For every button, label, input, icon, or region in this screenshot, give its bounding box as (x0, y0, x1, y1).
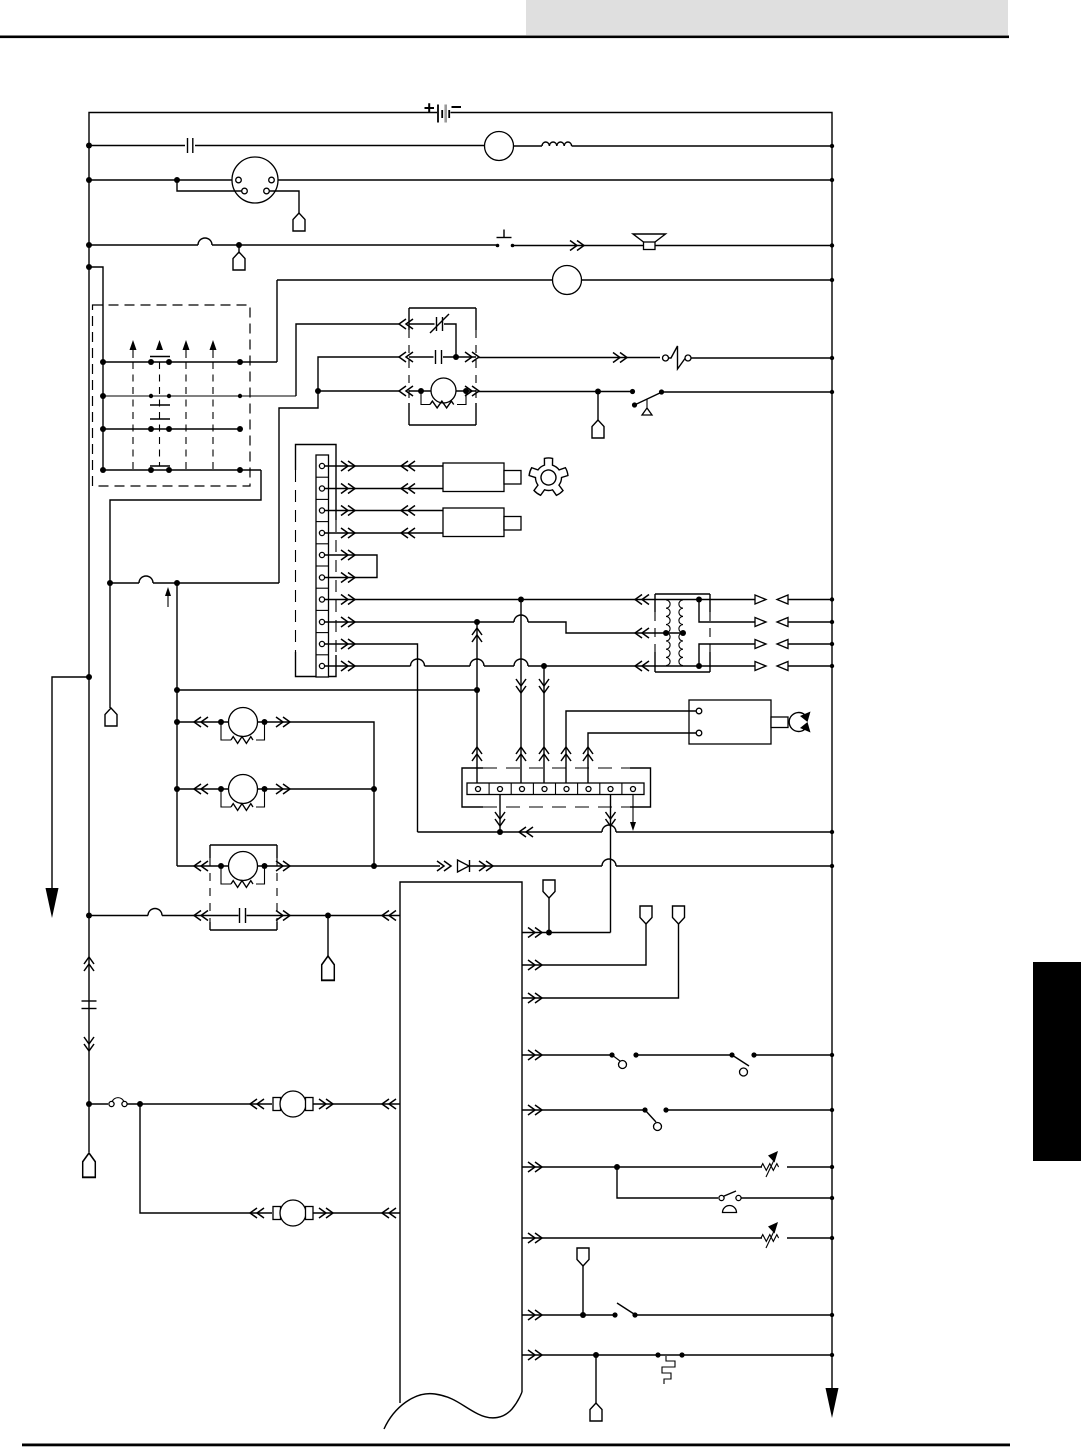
node row1315 right bus (830, 1313, 834, 1317)
node row245 lug branch (236, 242, 242, 248)
wire pin2 row y489 (325, 488, 444, 490)
resistor R3 under motor2 (221, 789, 265, 810)
distributor pin 3 (242, 188, 248, 194)
connector strip X1 pin circles (319, 463, 324, 668)
wire branch x617 to row1198 (617, 1167, 718, 1198)
chevron into box2 row533 (401, 528, 415, 538)
motor M3 nodes (218, 863, 268, 869)
wire relay row2 right (443, 356, 476, 358)
chevron out pin2 (341, 484, 355, 494)
chevron into box2 row511 (401, 506, 415, 516)
chevron out pin9 (341, 639, 355, 649)
wire pin row y1315 seg b (635, 1314, 832, 1316)
relay box A tab (504, 471, 521, 485)
chevron before diode (437, 861, 451, 871)
switch S3 on row1055 (609, 1052, 638, 1068)
relay K1 crossed capacitor contact (430, 314, 449, 333)
wire row1238 to bus (787, 1237, 832, 1239)
wire drop x521 from row599 (520, 600, 522, 784)
fuse center crossbar mid2 (150, 418, 170, 420)
fuse element arrow 2 (156, 340, 163, 350)
wire transformer tap to row622 out (699, 600, 755, 623)
wire hop row666 over 417 (411, 659, 425, 666)
wire pin row y1110 seg b (666, 1109, 832, 1111)
connector strip X1 outer housing (296, 445, 337, 677)
node row145 left bus (86, 143, 92, 149)
connector strip X2 body cells (467, 783, 644, 795)
wire transformer row666 out (710, 665, 755, 667)
wire row391 to switch (478, 391, 631, 393)
node row599 drop junction (518, 597, 524, 603)
chevron out of wiper box row915 (276, 911, 290, 921)
motor M5 with brushes (273, 1200, 313, 1226)
chevron out of motor4 (319, 1099, 333, 1109)
wire relay row3 feed (318, 390, 400, 392)
wire pin4 row y533 (325, 532, 444, 534)
chevron down on x500 (495, 812, 505, 826)
distributor pin 1 (236, 177, 242, 183)
wire lug lead x596 (595, 1355, 597, 1403)
node motor2 feed (174, 786, 180, 792)
wire hop on row y245 (198, 238, 212, 245)
node row622 drop junction (474, 619, 480, 625)
actuator pin top (696, 708, 702, 714)
wire lug lead 598 (597, 392, 599, 421)
connector chevron into relay row1 (399, 319, 413, 329)
wire row y245 segment c (513, 245, 832, 247)
node x374 row789 (371, 786, 377, 792)
terminal lug below row245 (233, 252, 245, 270)
wire row1198 to bus (741, 1197, 832, 1199)
node row690 at x177 (174, 687, 180, 693)
wire row y832 seg a (418, 831, 603, 833)
motor M2 row wire right (258, 788, 375, 790)
wire breaker to right bus (691, 357, 832, 359)
wire strip X2 pin7 drop (610, 795, 612, 933)
wire row y915 seg b (162, 915, 239, 917)
chevron into transformer row633 (635, 628, 649, 638)
terminal lug above row1315 (577, 1248, 589, 1266)
node row1104 branch x140 (137, 1101, 143, 1107)
relay K1 motor M circle (431, 378, 456, 403)
node row1104 left bus (86, 1101, 92, 1107)
node row832 right bus (830, 830, 834, 834)
node left bus fuse feed 267 (86, 264, 92, 270)
chevron out pin3 (341, 506, 355, 516)
wire row666 seg d to transformer (528, 665, 655, 667)
fuse center crossbar top (150, 356, 170, 358)
motor M2 nodes (218, 786, 268, 792)
fuse dashed element 4 (212, 362, 214, 470)
horn H1 speaker symbol (633, 234, 666, 250)
relay K1 motor nodes (418, 388, 469, 394)
wire row622 step to y633 (528, 622, 655, 633)
wire row y245 segment b (212, 244, 496, 246)
motor M1 row wire left (177, 721, 230, 723)
terminal lug above row998 (673, 906, 685, 924)
relay K1 breaker contact row1 wire (409, 323, 435, 325)
ECU torn bottom wavy edge (384, 1392, 522, 1429)
fuse box dashed enclosure (93, 305, 251, 486)
node row245 left bus (86, 242, 92, 248)
wire pin row y1167 (522, 1166, 762, 1168)
motor M1 nodes (218, 719, 268, 725)
inline connector contacts row1104 (109, 1098, 127, 1107)
relay K1 row2 wire left (409, 356, 434, 358)
fuse element arrow 4 (210, 340, 217, 358)
connector chevron into relay row2 (399, 352, 413, 362)
transformer T1 primary winding (666, 600, 670, 666)
node row1055 right bus (830, 1053, 834, 1057)
node row932 lug branch (546, 930, 552, 936)
wire pin row y932 (522, 932, 611, 934)
inductor L1 coil (542, 142, 572, 146)
wire lug lead x110 (109, 583, 111, 708)
node row583 left end (107, 580, 113, 586)
pin row y1315 chevron (528, 1310, 542, 1320)
wire row y690 cross line (177, 689, 477, 691)
node row666 drop junction (541, 663, 547, 669)
fuse element arrow 3 (183, 340, 190, 358)
node lug branch 598 (595, 389, 601, 395)
wire row y1213 seg b (313, 1212, 400, 1214)
rheostat VR1 on row1167 (761, 1151, 779, 1177)
wire relay row2 feed jog (318, 357, 400, 391)
motor M3 row wire left (177, 865, 230, 867)
wire row y915 seg a (89, 915, 148, 917)
wire pin1 row y466 (325, 465, 444, 467)
wire pin row y1055 seg b (636, 1054, 732, 1056)
wire row y280 right (582, 279, 833, 281)
chevron into motor4 (250, 1099, 264, 1109)
chapter tab black block (1033, 962, 1081, 1161)
rheostat VR2 on row1238 (761, 1222, 779, 1248)
wire strip X2 pin2 drop (499, 795, 501, 833)
wire pin row y1110 seg a (522, 1109, 645, 1111)
chevron out pin1 (341, 461, 355, 471)
chevron out pin6 (341, 573, 355, 583)
fuse box left column wire (102, 362, 104, 470)
capacitor C1 on row y145 (188, 138, 193, 153)
chevron down on left bus (84, 1037, 94, 1051)
terminal lug left bus bottom (83, 1153, 96, 1177)
node row832 x500 (497, 829, 503, 835)
wire row666 seg c (484, 665, 514, 667)
wire transformer tap to row644 out (699, 644, 755, 666)
node row866 right bus (830, 864, 834, 868)
connector chevron into relay row3 (399, 386, 413, 396)
chevron out of motor1 (276, 717, 290, 727)
wire drop x544 from row666 (543, 666, 545, 783)
relay box K1 dashed enclosure (409, 308, 476, 425)
resistor R2 under motor1 (221, 722, 265, 743)
circuit breaker CB1 (663, 346, 692, 369)
momentary switch S1 contact gap (496, 230, 515, 248)
wire pin8 row y622 (325, 621, 515, 623)
wire hop row666 over 521 (514, 659, 528, 666)
switch S4 on row1055 (729, 1052, 756, 1076)
wire row y1104 seg b (127, 1103, 272, 1105)
wire actuator top pin to x566 drop (566, 711, 696, 783)
chevron into box1 row466 (401, 461, 415, 471)
node row915 left bus (86, 913, 92, 919)
node row1238 right bus (830, 1236, 834, 1240)
capacitor C3 in wiper box (240, 908, 246, 923)
distributor pin 4 (264, 188, 270, 194)
wire branch x140 down to row1213 (140, 1104, 272, 1213)
wire switch to right bus row392 (663, 391, 832, 393)
wire transformer row599 out (710, 599, 755, 601)
fuse row 3 nodes (100, 426, 243, 432)
wire left bus to fuse box top (89, 267, 103, 362)
terminal lug above row965 (640, 906, 652, 924)
connector chevron mid row357 (613, 353, 627, 363)
fuse row 2 wire (103, 395, 296, 397)
node row583 branch 177 (174, 580, 180, 586)
wire lug lead at 239 (238, 245, 240, 252)
chevron up on left bus (84, 957, 94, 971)
transformer bottom tap node (696, 663, 702, 669)
chevron out pin7 (341, 595, 355, 605)
node row180 left bus (86, 177, 92, 183)
resistor R1 under relay motor (421, 391, 466, 408)
pin row y1055 chevron (528, 1050, 542, 1060)
chevron into motor5 (250, 1208, 264, 1218)
relay K1 motor row wires (409, 390, 476, 392)
motor M4 with brushes (273, 1091, 313, 1117)
pin row y1238 chevron (528, 1233, 542, 1243)
pin row y965 chevron (528, 960, 542, 970)
terminal lug below distributor (293, 213, 305, 231)
wire pin row y1055 seg a (522, 1054, 612, 1056)
chevron out of motor3 (276, 861, 290, 871)
wire pin row y965 to lug (522, 924, 646, 965)
fuse row 1 wire (103, 361, 277, 363)
fuse dashed element 1 (132, 362, 134, 470)
wire trunk x177 down (176, 583, 178, 866)
wire top frame line left of battery (89, 113, 437, 1153)
node row358 right bus (830, 356, 834, 360)
motor M1 row wire right (258, 722, 375, 866)
terminal lug below row1355 (590, 1403, 602, 1421)
switch S7 on row1315 (612, 1303, 637, 1318)
chevron out pin8 (341, 617, 355, 627)
chevron into wiper box row915 (194, 911, 208, 921)
node x477 y690 junction (474, 687, 480, 693)
wire relay row1 to row2 join (444, 324, 456, 357)
connector strip X2 outer housing (462, 768, 651, 807)
chevron up on x588 (583, 747, 593, 761)
node row392 right bus (830, 390, 834, 394)
node row180 right bus (830, 178, 834, 182)
wire hop row866 over x609 (602, 859, 616, 866)
pin row y998 chevron (528, 993, 542, 1003)
wire row666 seg b (425, 665, 471, 667)
fuse row 4 wire (103, 469, 261, 471)
bullet connector pair row599 (755, 595, 788, 604)
chevron down on x544 (539, 679, 549, 693)
motor M2 circle (229, 775, 258, 804)
fuse row 3 wire (103, 428, 240, 430)
connector chevron on row y245 (570, 241, 584, 251)
fuse row 2 nodes (100, 393, 242, 399)
chevron into ECU row915 (382, 911, 396, 921)
wire actuator bottom pin to x588 drop (588, 733, 696, 783)
chevron down on x610 (606, 812, 616, 826)
chevron up on x566 (561, 747, 571, 761)
header top rule (0, 36, 1009, 39)
motor M2 row wire left (177, 788, 230, 790)
arrow up marker under row583 (165, 587, 171, 607)
ground arrow right bus filled (826, 1388, 839, 1418)
relay box B body (443, 508, 504, 537)
switch S5 on row1110 (642, 1107, 668, 1130)
node row280 right bus (830, 278, 834, 282)
chevron into motor3 (194, 861, 208, 871)
chevron on row832 (519, 827, 533, 837)
chevron into transformer row599 (635, 595, 649, 605)
wire row644 to bus (788, 642, 834, 646)
transformer center tap wires (655, 630, 686, 636)
fuse center crossbar bottom (150, 465, 170, 467)
pin row y932 chevron (528, 928, 542, 938)
chevron into motor2 (194, 784, 208, 794)
wire top frame line right of battery (451, 113, 833, 1389)
wire row622 to bus (788, 620, 834, 624)
node x374 row866 (371, 863, 377, 869)
pin row y1167 chevron (528, 1162, 542, 1172)
connector strip X2 pin circles (476, 787, 636, 792)
wire pin row y1055 seg c (754, 1054, 832, 1056)
wire row y145 left (89, 145, 185, 147)
connector chevron out of relay row2 (465, 352, 479, 362)
wire row y915 seg c (247, 915, 401, 917)
footer bottom rule (22, 1444, 1010, 1447)
chevron into motor1 (194, 717, 208, 727)
connector chevron out of relay row3 (465, 386, 479, 396)
node relay row1-row2 junction (453, 354, 459, 360)
motor M3 circle (229, 852, 258, 881)
chevron up on x477 lower (472, 747, 482, 761)
wire drop x477 from row622 (476, 622, 478, 783)
chevron up on x544 (539, 747, 549, 761)
gauge G1 circle on row y145 (485, 132, 514, 161)
rotation arrow symbol (789, 712, 810, 733)
wire pin row y998 to lug (522, 924, 679, 998)
chevron up on x477 upper (472, 628, 482, 642)
chevron into ECU row1213 (382, 1208, 396, 1218)
capacitor C2 in relay (436, 350, 442, 364)
pin row y1110 chevron (528, 1105, 542, 1115)
wire lug lead x328 (327, 916, 329, 957)
motor M3 row wire right (258, 865, 441, 867)
distributor U1 body circle (232, 157, 278, 203)
fuse center element dashed (159, 362, 161, 466)
node relay feed junction (315, 388, 321, 394)
fuse element arrow 1 (130, 340, 137, 358)
wire pin5 pin6 loop (325, 555, 378, 578)
wire row y583 seg a (110, 582, 139, 584)
wire row y1104 seg c (313, 1103, 400, 1105)
wire riser fuse row1 to row280 (276, 280, 278, 362)
wire pin4 to lug lead (270, 191, 300, 213)
node left bus arrow branch (86, 674, 92, 680)
wire pin3 row y511 (325, 510, 444, 512)
bullet connector pair row666 (755, 662, 788, 671)
bullet connector pair row644 (755, 640, 788, 649)
chevron out pin10 (341, 661, 355, 671)
node row915 lug branch (325, 913, 331, 919)
wire row866 seg b (470, 865, 602, 867)
arrow down marker strip X2 pin8 (630, 795, 636, 832)
node row1167 right bus (830, 1165, 834, 1169)
fuse row 1 nodes (100, 359, 243, 365)
actuator pin bottom (696, 730, 702, 736)
terminal lug above row932 (543, 880, 555, 898)
wire row866 seg c to bus (616, 865, 832, 867)
actuator M6 body (689, 700, 771, 744)
node row1315 lug branch (580, 1312, 586, 1318)
chevron into box1 row489 (401, 484, 415, 494)
fuse center crossbar mid1 (150, 404, 170, 406)
header gray box (526, 0, 1008, 35)
wiper box dashed enclosure (210, 845, 277, 930)
wire hop row666 over 477 (470, 659, 484, 666)
wire fuse row4 exit to y583 line (110, 470, 261, 583)
distributor pin 2 (269, 177, 275, 183)
motor M1 circle (229, 708, 258, 737)
node row245 right bus (830, 243, 834, 247)
wire row y280 horn gauge line (277, 279, 553, 281)
transformer top tap node (696, 597, 702, 603)
actuator shaft tab (771, 717, 788, 728)
wire hop row832 over x610 (602, 825, 616, 832)
thermal breaker TH1 (662, 1356, 675, 1384)
wire row666 to bus (788, 664, 834, 668)
node branch at 177,180 (174, 177, 180, 183)
wire pin row y1238 (522, 1237, 762, 1239)
wire branch 177 down to pin3 (177, 180, 242, 191)
ECU large box (400, 882, 522, 1403)
wire row y1104 seg a (89, 1103, 108, 1105)
wire pin row y1315 seg a (522, 1314, 615, 1316)
terminal lug x110 (105, 708, 117, 726)
wire row y245 segment a (89, 244, 198, 246)
node row1198 right bus (830, 1196, 834, 1200)
wire row y832 seg b to bus (616, 831, 832, 833)
wire pin10 row y666 seg a (325, 665, 411, 667)
transformer interior through lines (655, 600, 710, 667)
transformer T1 secondary winding (679, 600, 683, 666)
wire row y180 left (89, 179, 235, 181)
wire row357 to breaker (478, 357, 660, 359)
diode D1 (458, 860, 470, 872)
chevron out pin4 (341, 528, 355, 538)
chevron into ECU row1104 (382, 1099, 396, 1109)
transformer T1 enclosure (655, 594, 710, 672)
switch S2 lever and contacts (630, 389, 664, 415)
gear icon (526, 453, 573, 501)
wire row y145 to coil (514, 145, 543, 147)
chevron down on x521 (516, 679, 526, 693)
wire row y583 seg b (153, 582, 279, 584)
chevron out of motor5 (319, 1208, 333, 1218)
node row1110 right bus (830, 1108, 834, 1112)
wire hop row915 (148, 909, 162, 916)
node row1355 right bus (830, 1353, 834, 1357)
wire hop row622 over 521 (514, 615, 528, 622)
pin row y1355 chevron (528, 1350, 542, 1360)
